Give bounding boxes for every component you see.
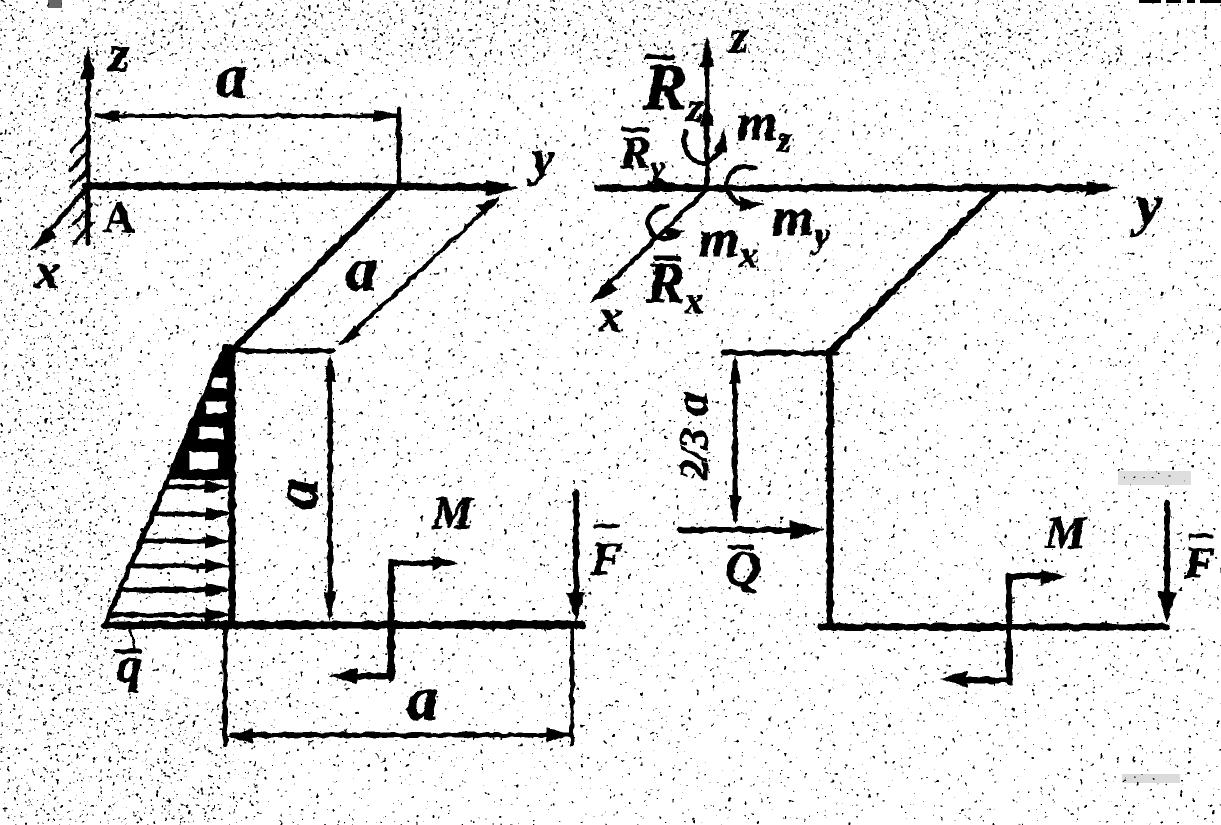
svg-text:A: A <box>103 193 135 242</box>
svg-text:z: z <box>107 26 130 83</box>
svg-text:2/3: 2/3 <box>671 428 716 480</box>
svg-text:F: F <box>590 533 622 584</box>
svg-text:F: F <box>1183 537 1215 588</box>
svg-text:Q: Q <box>725 540 761 596</box>
svg-text:M: M <box>431 487 475 538</box>
svg-text:a: a <box>407 665 438 733</box>
svg-text:a: a <box>263 479 331 510</box>
svg-text:x: x <box>598 290 622 341</box>
svg-text:M: M <box>1044 507 1088 558</box>
svg-text:a: a <box>346 236 377 304</box>
svg-text:y: y <box>527 130 555 186</box>
svg-text:a: a <box>665 392 718 416</box>
svg-text:a: a <box>216 43 247 111</box>
svg-text:q: q <box>117 637 142 693</box>
svg-text:z: z <box>728 10 749 63</box>
svg-text:x: x <box>34 243 60 299</box>
